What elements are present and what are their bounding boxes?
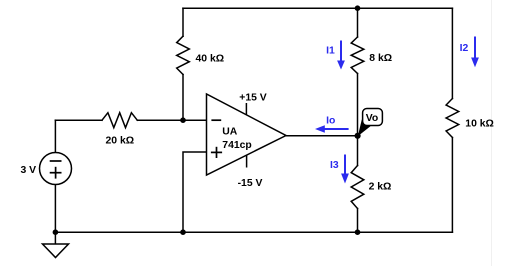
current arrow I1 [326,41,345,70]
resistor R1 40 kOhm [177,36,190,74]
node Vo dot [355,133,361,139]
wire 8k to node Vo [357,74,359,136]
svg-text:-15 V: -15 V [238,178,263,189]
svg-text:Io: Io [326,116,335,127]
wire 40k branch lower [182,75,184,121]
resistor R5 10 kOhm [446,99,459,138]
wire ground stub [54,232,56,244]
wire source top lead [54,120,56,152]
wire source to 20k [55,119,102,121]
wire 2k to bottom rail [357,209,359,233]
svg-text:+15 V: +15 V [239,92,267,103]
wire node Vo to 2k [357,136,359,166]
faint page edge line [491,0,493,266]
current arrow I3 [330,155,349,184]
wire right branch top [451,8,453,98]
current arrow Io [315,116,349,133]
wire 20k to inverting input [137,119,206,121]
op-amp U1 UA741cp [207,94,287,175]
wire top rail [183,7,452,9]
wire middle branch top [357,8,359,37]
voltage source V1 3V [40,153,72,185]
resistor R2 20 kOhm [102,113,137,128]
junction dot at top rail middle branch [355,5,361,11]
junction dot at middle branch bottom [355,229,361,235]
ground [43,244,69,258]
svg-text:8 kΩ: 8 kΩ [369,53,392,64]
svg-text:Vo: Vo [366,113,379,124]
junction dot at inverting input node [180,117,186,123]
wire source bottom lead [54,185,56,233]
node Vo flag [358,109,383,137]
wire bottom rail [55,231,452,233]
wire 10k to bottom rail [451,138,453,233]
resistor R3 8 kOhm [351,37,364,74]
current arrow I2 [460,37,479,68]
svg-text:2 kΩ: 2 kΩ [369,181,392,192]
svg-text:3 V: 3 V [20,165,36,176]
wire noninverting input to ground rail [183,152,207,232]
junction dot at source ground node [53,229,59,235]
svg-text:741cp: 741cp [222,140,251,151]
svg-text:I1: I1 [326,46,335,57]
svg-text:UA: UA [222,127,238,138]
wire op-amp output [286,135,358,137]
svg-text:10 kΩ: 10 kΩ [465,118,494,129]
resistor R4 2 kOhm [351,166,364,209]
svg-text:20 kΩ: 20 kΩ [106,135,135,146]
wire 40k branch upper [182,8,184,36]
junction dot at noninverting ground node [180,229,186,235]
svg-text:I2: I2 [460,43,469,54]
svg-text:I3: I3 [330,160,339,171]
svg-text:40 kΩ: 40 kΩ [196,54,225,65]
